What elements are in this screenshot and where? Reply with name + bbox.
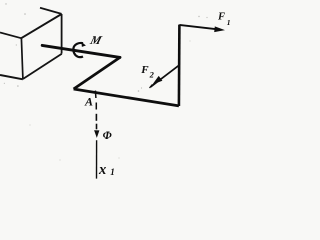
force F2 line bbox=[151, 65, 180, 87]
phi arrowhead bbox=[94, 130, 99, 138]
svg-text:F: F bbox=[217, 12, 225, 23]
wall block top back edge bbox=[40, 8, 62, 14]
dashed rotation line dash 2 bbox=[95, 114, 97, 121]
force F1 line bbox=[179, 25, 217, 29]
axis x1 line bbox=[96, 140, 98, 178]
force F2 arrowhead bbox=[153, 76, 163, 85]
crank vertical segment bbox=[178, 25, 181, 106]
wall block top front edge bbox=[21, 14, 61, 38]
force F2 overshoot stroke bbox=[150, 84, 153, 88]
svg-text:1: 1 bbox=[227, 18, 231, 27]
svg-text:Φ: Φ bbox=[103, 130, 112, 142]
wall block top-left edge bbox=[0, 33, 21, 39]
wall block bottom front edge bbox=[23, 54, 62, 79]
svg-text:2: 2 bbox=[149, 70, 155, 80]
svg-text:F: F bbox=[140, 64, 149, 76]
moment M arc at C bbox=[73, 43, 83, 57]
moment arc arrowhead bbox=[81, 42, 86, 47]
svg-text:x: x bbox=[98, 162, 106, 178]
svg-text:A: A bbox=[84, 94, 93, 108]
dashed rotation line dash 3 bbox=[96, 124, 98, 130]
scan noise specks bbox=[4, 3, 208, 160]
crank long segment through A bbox=[74, 89, 179, 106]
svg-text:1: 1 bbox=[110, 167, 115, 177]
wall block left vertical edge bbox=[21, 38, 23, 79]
wall block bottom left edge bbox=[0, 75, 23, 79]
point A tick bbox=[94, 91, 97, 98]
shaft segment C bbox=[42, 45, 120, 57]
crank diagonal segment bbox=[74, 57, 120, 89]
dashed rotation line dash 1 bbox=[95, 103, 97, 110]
force F1 arrowhead bbox=[214, 26, 225, 32]
wall block right vertical edge bbox=[61, 14, 63, 54]
